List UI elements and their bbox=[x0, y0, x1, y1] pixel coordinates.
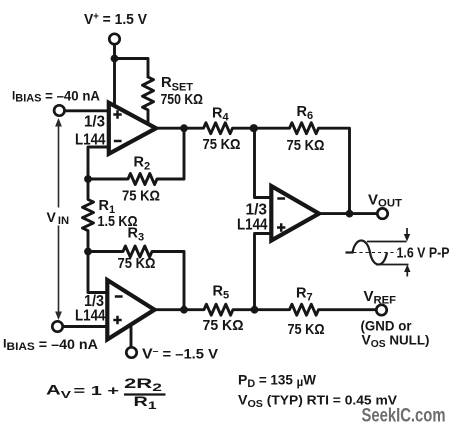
svg-text:75 KΩ: 75 KΩ bbox=[203, 317, 244, 334]
svg-text:750 KΩ: 750 KΩ bbox=[161, 91, 204, 108]
svg-text:75 KΩ: 75 KΩ bbox=[122, 188, 160, 205]
svg-text:L144: L144 bbox=[237, 217, 268, 234]
svg-text:75 KΩ: 75 KΩ bbox=[288, 321, 325, 338]
svg-text:SeekIC.com: SeekIC.com bbox=[362, 406, 446, 427]
svg-text:75 KΩ: 75 KΩ bbox=[287, 137, 325, 154]
svg-text:1/3: 1/3 bbox=[84, 114, 105, 131]
svg-text:(GND or: (GND or bbox=[361, 319, 413, 334]
svg-text:1.6 V P-P: 1.6 V P-P bbox=[397, 245, 450, 262]
svg-text:L144: L144 bbox=[75, 132, 106, 149]
svg-text:75 KΩ: 75 KΩ bbox=[203, 136, 241, 153]
svg-text:L144: L144 bbox=[75, 308, 106, 325]
svg-text:= 1 +: = 1 + bbox=[74, 383, 120, 398]
svg-text:75 KΩ: 75 KΩ bbox=[118, 255, 156, 272]
